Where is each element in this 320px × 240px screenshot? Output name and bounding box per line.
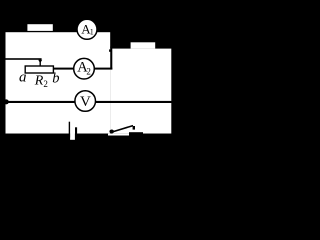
svg-text:R: R xyxy=(34,74,44,89)
wire: right vertical edge xyxy=(171,47,173,136)
switch lever (open, rising to the right) xyxy=(110,126,133,133)
junction nub (branch joins middle vertical wire) xyxy=(109,49,110,51)
wire: voltmeter row horizontal (left edge to right edge) xyxy=(4,101,172,103)
switch fixed contact tick xyxy=(133,126,135,130)
rheostat R2 (slide resistor box) xyxy=(25,66,53,73)
circuit interior background (right enclosed region) xyxy=(110,49,171,134)
wire: middle vertical segment (junction of A1 branch down to A2 branch) xyxy=(110,31,112,70)
svg-text:1: 1 xyxy=(90,27,94,36)
rheostat slider arrow (points down onto box) xyxy=(38,59,42,66)
wire: top-right horizontal segment (junction through R3 box to right edge) xyxy=(110,47,172,49)
svg-text:2: 2 xyxy=(43,79,48,89)
wire: left vertical edge xyxy=(4,31,6,136)
battery: long positive plate xyxy=(69,122,70,138)
junction dot (left edge / voltmeter wire) xyxy=(4,99,9,104)
wire: bottom band rise under switch contact xyxy=(129,132,143,134)
battery: short negative plate (thick) xyxy=(75,127,77,135)
white under-lever region of switch xyxy=(108,134,129,136)
ammeter A1 xyxy=(77,19,97,39)
battery: white pocket between plates below wire xyxy=(70,133,75,140)
resistor R1 (top-left box) xyxy=(27,24,52,31)
wire: rheostat b terminal to ammeter A2 xyxy=(53,68,75,70)
switch pivot dot xyxy=(109,130,114,134)
svg-text:V: V xyxy=(80,94,91,110)
svg-text:2: 2 xyxy=(86,66,91,76)
ammeter A2 xyxy=(74,58,95,79)
wire: top-left horizontal segment (left edge to junction, through R1 and A1) xyxy=(4,30,113,32)
svg-text:b: b xyxy=(52,71,59,87)
resistor R3 (top-right box) xyxy=(131,42,156,48)
wire: ammeter A2 to middle vertical segment xyxy=(94,68,113,70)
svg-text:a: a xyxy=(19,69,27,85)
voltmeter V xyxy=(75,91,96,112)
wire: bottom horizontal segment (merged with lower black border) xyxy=(4,134,172,136)
wire: rheostat slider feed from left edge xyxy=(4,58,42,60)
circuit interior background (seam under vertical wire) xyxy=(110,70,112,134)
circuit interior background (left enclosed region) xyxy=(6,32,111,134)
